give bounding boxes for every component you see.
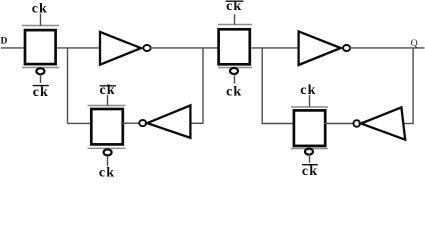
svg-text:ck: ck: [33, 85, 49, 100]
clock label ck-bar (TG2 top): [226, 0, 244, 14]
clock label ck (TG3 bottom): [99, 165, 115, 180]
svg-text:ck: ck: [226, 0, 242, 14]
wire U2 to output Q: [350, 47, 425, 49]
transmission gate TG3: [88, 95, 126, 166]
wire TG3 to inverter U3: [121, 122, 140, 124]
clock label ck (TG1 top): [32, 2, 48, 17]
wire node Y vertical drop to U3 input: [190, 48, 204, 124]
clock label ck (TG2 bottom): [226, 85, 242, 100]
svg-text:ck: ck: [32, 2, 48, 17]
svg-text:D: D: [1, 37, 8, 47]
wire node Z vertical drop: [261, 48, 263, 125]
transmission gate TG1: [22, 14, 59, 84]
wire TG2 to inverter U2: [252, 47, 300, 49]
node D input label: [1, 37, 8, 47]
wire node X vertical drop: [67, 48, 69, 124]
clock label ck-bar (TG3 top): [99, 83, 116, 98]
wire Q node vertical drop to U4 input: [403, 48, 413, 125]
svg-text:ck: ck: [99, 83, 115, 98]
wire U1 to TG2: [150, 47, 218, 49]
transmission gate TG2: [218, 14, 252, 83]
inverter U1: [100, 32, 151, 65]
inverter U4 (feedback, points left): [353, 107, 405, 139]
svg-text:ck: ck: [99, 165, 115, 178]
svg-text:ck: ck: [226, 85, 242, 100]
node Q output label: [411, 38, 418, 49]
wire TG1 to inverter U1: [56, 47, 100, 49]
wire D to TG1: [1, 47, 24, 49]
inverter U2: [299, 31, 351, 65]
svg-text:ck: ck: [300, 83, 316, 98]
inverter U3 (feedback, points left): [139, 105, 190, 137]
clock label ck-bar (TG4 bottom): [302, 164, 318, 179]
wire node Z to TG4: [262, 123, 295, 125]
clock label ck (TG4 top): [300, 83, 316, 98]
wire TG4 to inverter U4: [324, 123, 354, 125]
transmission gate TG4: [291, 95, 328, 163]
clock label ck-bar (TG1 bottom): [33, 85, 49, 100]
svg-text:Q: Q: [411, 38, 418, 49]
wire node X to TG3: [68, 122, 93, 124]
svg-text:ck: ck: [302, 164, 318, 178]
